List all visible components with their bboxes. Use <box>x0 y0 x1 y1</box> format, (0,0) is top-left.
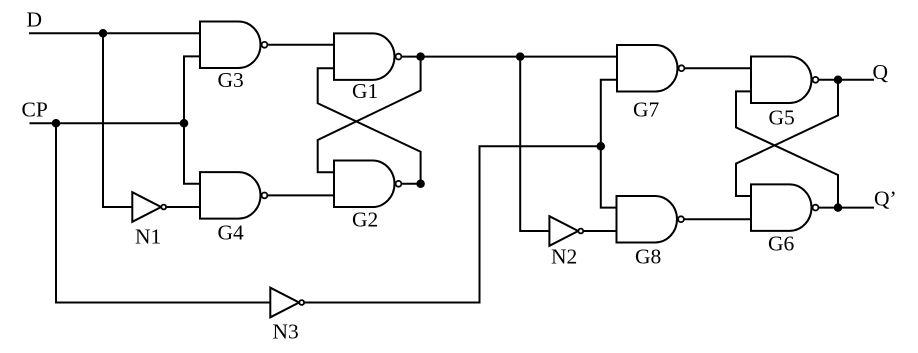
wire CP junction to N3 input <box>56 123 270 302</box>
node Q' <box>834 203 843 212</box>
svg-text:G1: G1 <box>352 79 378 103</box>
wire G6 output cross to G5 lower input <box>736 91 838 207</box>
wire G4 output to G2 lower input <box>268 194 334 196</box>
wire D input <box>30 32 200 34</box>
nand gate G4 <box>200 172 261 219</box>
node N2 tap <box>516 52 525 61</box>
svg-text:G5: G5 <box>769 106 795 130</box>
svg-text:Q: Q <box>873 60 889 84</box>
svg-text:D: D <box>27 8 43 32</box>
wire CP junction down to G4 upper input <box>184 123 200 184</box>
wire N3 output riser to junction <box>305 146 601 302</box>
svg-text:N2: N2 <box>551 245 577 269</box>
wire G1 output cross to G2 upper input <box>318 57 421 173</box>
inverter N3 <box>270 288 299 318</box>
node D junction <box>99 29 108 38</box>
nand gate G5 <box>751 57 812 104</box>
wire G3 output to G1 upper input <box>268 44 334 46</box>
wire G6 output to Q' <box>819 207 873 209</box>
inverter N2 <box>549 216 578 246</box>
inverter N1 <box>132 192 161 222</box>
wire tap on G1 output down to N2 input <box>520 57 549 231</box>
nand gate G3 <box>200 22 261 69</box>
wire G1 output to G7 upper input <box>402 56 617 58</box>
wire CP input <box>31 122 185 124</box>
node G2 output <box>416 180 425 189</box>
svg-text:G2: G2 <box>352 208 378 232</box>
nand gate G2 <box>334 161 395 208</box>
wire CP junction up to G3 lower input <box>184 56 200 123</box>
wire junction up to G7 lower input <box>601 80 617 146</box>
nand gate G1 <box>334 33 394 80</box>
node G1 output <box>416 52 425 61</box>
wire D junction to N1 input <box>103 33 132 207</box>
wire N2 output to G8 lower input <box>584 230 617 232</box>
svg-text:G6: G6 <box>768 232 795 256</box>
svg-text:CP: CP <box>22 98 48 122</box>
nand gate G7 <box>617 45 677 91</box>
svg-text:G4: G4 <box>218 221 245 245</box>
wire G8 output to G6 lower input <box>685 218 752 220</box>
svg-text:G7: G7 <box>633 98 660 122</box>
svg-text:G3: G3 <box>218 68 244 92</box>
svg-text:Q’: Q’ <box>874 187 897 211</box>
node N3 riser junction <box>597 142 606 151</box>
node CP junction 2 <box>180 119 189 128</box>
svg-text:N3: N3 <box>273 320 299 344</box>
wire G5 output to Q <box>819 79 873 81</box>
node Q <box>834 76 843 85</box>
nand gate G6 <box>751 184 812 231</box>
wire G5 output cross to G6 upper input <box>736 80 838 196</box>
wire junction down to G8 upper input <box>601 146 617 207</box>
svg-text:G8: G8 <box>635 245 661 269</box>
wire G7 output to G5 upper input <box>685 67 751 69</box>
wire N1 output to G4 lower input <box>167 206 200 208</box>
node CP junction 1 <box>52 119 61 128</box>
svg-text:N1: N1 <box>135 225 161 249</box>
nand gate G8 <box>617 196 678 243</box>
wire G2 output to node <box>402 183 421 185</box>
wire G2 output cross to G1 lower input <box>318 68 421 184</box>
